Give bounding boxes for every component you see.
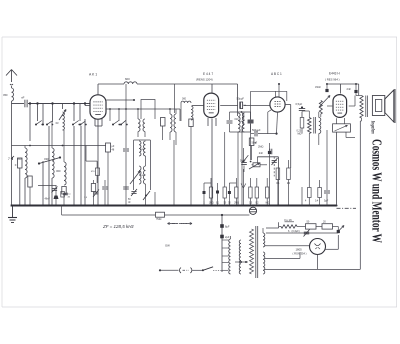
svg-text:5µF: 5µF — [324, 200, 329, 203]
svg-text:1MΩ: 1MΩ — [209, 202, 214, 204]
svg-text:7: 7 — [8, 157, 10, 161]
svg-text:500µµF: 500µµF — [252, 129, 261, 132]
svg-text:2MΩ: 2MΩ — [234, 202, 239, 204]
svg-text:2MΩ: 2MΩ — [258, 146, 263, 149]
svg-text:2nF: 2nF — [259, 152, 264, 155]
svg-text:48nF: 48nF — [45, 199, 51, 201]
svg-text:0050: 0050 — [140, 175, 146, 177]
svg-text:(RENS 1204): (RENS 1204) — [196, 78, 213, 82]
svg-text:( RES 964 ): ( RES 964 ) — [325, 78, 340, 82]
svg-text:Ingelen: Ingelen — [369, 120, 375, 134]
svg-text:A K 1: A K 1 — [89, 73, 97, 77]
svg-text:8µF: 8µF — [225, 225, 230, 229]
svg-text:A B C 1: A B C 1 — [271, 72, 282, 76]
svg-text:( RGN 354 ): ( RGN 354 ) — [293, 252, 307, 256]
svg-text:1805: 1805 — [296, 248, 303, 252]
svg-text:ZF = 128,5 kHz: ZF = 128,5 kHz — [102, 224, 135, 229]
svg-text:7MΩ: 7MΩ — [156, 218, 161, 221]
svg-text:(0,3µF): (0,3µF) — [292, 230, 300, 233]
svg-text:E443 H: E443 H — [329, 72, 340, 76]
svg-text:000: 000 — [56, 169, 61, 173]
svg-text:MΩ: MΩ — [266, 202, 270, 204]
svg-text:000: 000 — [182, 98, 187, 101]
svg-text:MΩ: MΩ — [298, 133, 302, 136]
svg-text:600: 600 — [125, 77, 130, 81]
svg-text:50µµF: 50µµF — [237, 97, 245, 101]
svg-text:GW: GW — [165, 244, 170, 248]
svg-text:0050: 0050 — [140, 149, 146, 151]
svg-text:050: 050 — [3, 93, 8, 97]
svg-text:33nF: 33nF — [315, 85, 321, 89]
svg-text:≡: ≡ — [15, 163, 17, 167]
svg-text:010: 010 — [235, 118, 240, 121]
svg-text:0,5µF: 0,5µF — [296, 102, 303, 106]
svg-text:nF: nF — [21, 96, 25, 100]
svg-text:Cosmos W und Mentor W: Cosmos W und Mentor W — [369, 139, 384, 243]
svg-text:2nF: 2nF — [347, 87, 352, 91]
svg-text:50nF: 50nF — [252, 142, 258, 145]
svg-text:E 4 4 7: E 4 4 7 — [203, 72, 213, 76]
svg-text:Fu 16: Fu 16 — [285, 218, 293, 222]
svg-text:2µF: 2µF — [225, 235, 230, 239]
